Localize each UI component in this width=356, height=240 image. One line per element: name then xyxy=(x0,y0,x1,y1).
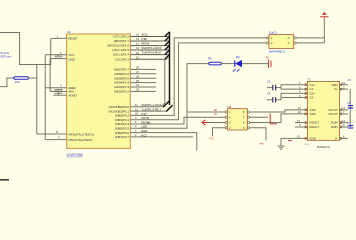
U3 right pin circles xyxy=(248,111,250,113)
svg-text:TxD/P3.0-RCK: TxD/P3.0-RCK xyxy=(142,51,162,55)
svg-text:R2IN: R2IN xyxy=(331,125,338,129)
svg-text:T1: T1 xyxy=(307,78,311,82)
wire net ESD drop xyxy=(130,133,197,151)
wire GND rail down to AVV xyxy=(49,59,51,92)
capacitor C4 xyxy=(267,92,303,103)
capacitor C1 (VCC decoupling bars) xyxy=(55,55,63,58)
wire R2 to LED D1 xyxy=(221,63,235,65)
ground sym below U4 GND xyxy=(281,138,303,145)
resistor R2 xyxy=(209,62,221,65)
wire opto pin3 stub xyxy=(209,122,226,124)
wire right edge riser xyxy=(349,89,351,127)
svg-text:BA/EX(?): BA/EX(?) xyxy=(317,145,330,149)
pin numbers U1 right group C xyxy=(135,103,138,137)
wire VCC riser xyxy=(323,17,325,43)
wire net LED xyxy=(130,64,209,129)
capacitor C3 xyxy=(267,80,303,91)
svg-text:Vss: Vss xyxy=(259,142,264,146)
U4 right pin circles xyxy=(340,84,342,140)
U1 right group B pins xyxy=(130,69,156,91)
svg-text:B+: B+ xyxy=(266,56,270,60)
wire net P17 to RS485 A xyxy=(130,38,266,116)
power symbol VCC xyxy=(320,12,329,17)
svg-text:(KBI7)P0.7: (KBI7)P0.7 xyxy=(115,135,130,139)
pin AVCC (U1 left) xyxy=(50,91,67,93)
wire net TXD xyxy=(130,54,169,56)
wire U5 pin4 to VCC xyxy=(296,37,324,39)
net labels group A xyxy=(142,32,162,54)
U5 pin 2 xyxy=(266,42,268,44)
wire resistor R1 riser to XTAL1 xyxy=(29,78,37,134)
svg-text:1K2: 1K2 xyxy=(15,80,21,84)
wire net to opto pin2 xyxy=(130,117,225,124)
U1 right group C inside labels xyxy=(108,105,129,139)
wire U5 pin3 to VCC riser xyxy=(296,42,324,44)
svg-text:(AD07)P2.7: (AD07)P2.7 xyxy=(114,68,129,72)
U1 right group C pins and wires xyxy=(130,38,266,151)
svg-text:R1IN: R1IN xyxy=(331,121,338,125)
svg-text:R2OUT: R2OUT xyxy=(310,125,320,129)
svg-text:(AD05)P2.5: (AD05)P2.5 xyxy=(114,76,129,80)
U4 left pin numbers xyxy=(297,81,301,139)
svg-text:P30: P30 xyxy=(142,37,148,41)
IC U1 microcontroller body xyxy=(67,34,131,148)
svg-text:T2OUT: T2OUT xyxy=(328,112,338,116)
svg-text:MP1(XTAL1/TEST1): MP1(XTAL1/TEST1) xyxy=(69,133,95,137)
svg-text:V+: V+ xyxy=(334,87,338,91)
svg-text:1B: 1B xyxy=(214,108,217,112)
U5 pin 1 xyxy=(266,37,268,39)
IC U4 MAX232 body xyxy=(307,81,339,140)
wire LED to power symbol xyxy=(242,63,269,65)
bus B1 vertical with entries xyxy=(165,32,170,59)
pin numbers U1 right group A xyxy=(136,33,139,60)
power arrow red at U3 pin3 xyxy=(202,120,209,125)
ground bars xyxy=(278,146,285,149)
pin AREF (U1 left) xyxy=(45,87,66,89)
wire VCC rail down to XTAL2 xyxy=(44,55,46,140)
U4 left pin stubs xyxy=(295,85,307,139)
svg-text:MAX485E.C: MAX485E.C xyxy=(269,50,286,54)
power bar red at U3 pin7 xyxy=(270,114,277,125)
wire U3 pin5 to GND port xyxy=(250,128,266,141)
wire resistor node up to reset rail xyxy=(36,65,38,79)
pin RESET (U1 left) xyxy=(51,37,67,39)
svg-text:(AD06)P2.6: (AD06)P2.6 xyxy=(114,72,129,76)
svg-text:MN=(XTAL2/TEST): MN=(XTAL2/TEST) xyxy=(69,138,93,142)
wire net KCl xyxy=(130,136,193,138)
U3 left pin circles xyxy=(225,111,227,113)
svg-text:VT2: VT2 xyxy=(209,137,215,141)
svg-text:T2IN: T2IN xyxy=(310,112,316,116)
wire U3 pin8 to U4 T1IN xyxy=(250,110,304,112)
svg-text:v. .s: v. .s xyxy=(305,143,310,146)
svg-text:R3: R3 xyxy=(208,57,212,61)
svg-text:(OC1.3)P1.4: (OC1.3)P1.4 xyxy=(113,53,130,57)
pin XTAL1 (U1 left) xyxy=(37,133,67,135)
wire net RxTB to RS485 B xyxy=(130,43,266,120)
wire net RXD1 riser to bus xyxy=(130,56,169,107)
U4 right pin numbers xyxy=(342,81,345,139)
svg-text:Su(C): Su(C) xyxy=(269,31,277,35)
svg-text:(AD02)P2.2: (AD02)P2.2 xyxy=(114,90,129,94)
wire net RXD xyxy=(130,49,169,51)
U5 pin 3 xyxy=(294,42,296,44)
svg-text:C2-: C2- xyxy=(310,96,315,100)
U1 right group A inside labels xyxy=(107,35,129,62)
svg-text:C5: C5 xyxy=(348,78,352,82)
svg-text:1C: 1C xyxy=(214,112,217,116)
svg-text:C3: C3 xyxy=(267,80,271,84)
U1 right group B inside labels xyxy=(114,68,129,94)
svg-text:VDD: VDD xyxy=(331,83,337,87)
svg-text:P1.(LV): P1.(LV) xyxy=(1,51,10,55)
LED D1 xyxy=(233,55,242,72)
svg-text:(MISO)P1.7: (MISO)P1.7 xyxy=(114,39,130,43)
svg-text:(.OC1.4)P1.5: (.OC1.4)P1.5 xyxy=(112,48,129,52)
svg-text:RxD/P3.1-RCK: RxD/P3.1-RCK xyxy=(142,46,162,50)
wire stub at left edge bottom xyxy=(0,179,9,181)
wire U3 pin7 to red bar xyxy=(250,116,268,118)
wire net row6 xyxy=(130,58,165,60)
svg-text:GND: GND xyxy=(69,57,75,61)
IC U3 optocoupler body xyxy=(228,109,248,130)
pin numbers U1 right group B xyxy=(136,66,139,92)
svg-text:C7: C7 xyxy=(348,121,352,125)
resistor R1 xyxy=(14,77,29,80)
svg-text:U1: U1 xyxy=(67,30,71,34)
wire U3 pin4 to GND port xyxy=(213,128,226,137)
U5 pin 4 xyxy=(294,37,296,39)
wire reset staircase from left edge xyxy=(0,33,51,65)
svg-text:U3: U3 xyxy=(228,105,232,109)
svg-text:RST-com: RST-com xyxy=(1,55,12,59)
svg-text:MOSI: MOSI xyxy=(142,42,150,46)
U4 left inside labels xyxy=(310,83,320,141)
net labels group C xyxy=(142,103,162,137)
svg-text:AGND: AGND xyxy=(69,93,77,97)
U1 right group A pins and net wires xyxy=(130,37,169,60)
U4 left pin circles xyxy=(305,84,307,140)
svg-text:(OC1)P1.3: (OC1)P1.3 xyxy=(115,57,129,61)
svg-text:R1OUT: R1OUT xyxy=(310,121,320,125)
capacitor C2 (AREF bars) xyxy=(55,89,63,95)
svg-text:C1+: C1+ xyxy=(310,83,316,87)
svg-text:KCl: KCl xyxy=(142,133,147,137)
pin GND (U1 left) xyxy=(50,58,67,60)
wire net TXD1 xyxy=(130,110,167,112)
svg-text:D2: D2 xyxy=(236,55,240,59)
svg-text:(AD04)P2.4: (AD04)P2.4 xyxy=(114,81,129,85)
U4 right inside labels xyxy=(328,83,338,141)
wire net SCK xyxy=(130,36,169,38)
bus B2 riser (thick) xyxy=(163,56,173,112)
svg-text:VCC: VCC xyxy=(69,53,75,57)
svg-text:RESET: RESET xyxy=(69,37,79,41)
pin AGND (U1 left) xyxy=(54,94,67,96)
svg-text:(MCO/OCX)P1.6: (MCO/OCX)P1.6 xyxy=(107,44,129,48)
U3 pin numbers xyxy=(229,110,245,130)
wire from left edge to resistor R1 xyxy=(0,78,14,87)
junction tick red near U4 bottom label xyxy=(288,140,292,142)
svg-text:GND: GND xyxy=(310,137,316,141)
wire net P30 xyxy=(130,40,169,42)
svg-text:SCK: SCK xyxy=(142,32,148,36)
wire net MOSI xyxy=(130,45,169,47)
pin VCC (U1 left) xyxy=(45,54,66,56)
power symbol red at LED anode xyxy=(269,60,272,69)
wire U3 pin6 to U4 T2IN xyxy=(250,114,304,123)
svg-text:U?LPC76B: U?LPC76B xyxy=(67,153,83,157)
IC U5 RS485 body xyxy=(269,35,294,49)
LED arrows xyxy=(233,69,240,71)
svg-text:(.ST1.2)P1.9: (.ST1.2)P1.9 xyxy=(113,35,130,39)
U4 right pin stubs xyxy=(340,85,348,139)
pin XTAL2 (U1 left) xyxy=(45,139,66,141)
svg-text:C6: C6 xyxy=(348,101,352,105)
svg-text:V-: V- xyxy=(335,137,338,141)
wire opto pin1 branch xyxy=(187,111,226,113)
svg-text:C4: C4 xyxy=(267,92,271,96)
svg-text:(AD03)P2.3: (AD03)P2.3 xyxy=(114,85,129,89)
